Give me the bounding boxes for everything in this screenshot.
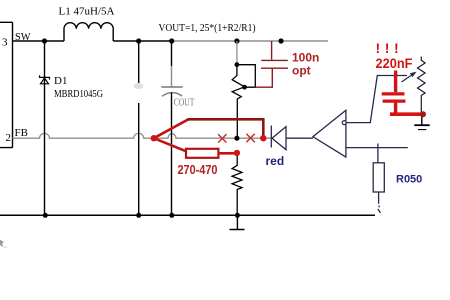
svg-text:opt: opt: [292, 64, 311, 78]
diode D2 (at "red" mod): [271, 126, 313, 150]
svg-text:MBRD1045G: MBRD1045G: [54, 88, 103, 100]
capacitor COUT plates: [161, 86, 182, 88]
svg-text:VOUT=1, 25*(1+R2/R1): VOUT=1, 25*(1+R2/R1): [159, 22, 256, 34]
node dot R2 tap: [242, 85, 247, 90]
svg-text:COUT: COUT: [174, 98, 195, 109]
wire vertical x138.7 lower: [138, 103, 140, 215]
wire bubble output to wiper arrow: [346, 76, 407, 123]
red node dot FB tap: [151, 135, 157, 141]
svg-text:100n: 100n: [292, 51, 319, 65]
wire R050 top lead: [377, 144, 379, 163]
svg-text:3: 3: [2, 37, 8, 49]
red mod wire lower diagonal to resistor box: [154, 138, 186, 151]
wire divider gray drop: [236, 41, 238, 65]
red X cut mark right: [246, 134, 254, 142]
node dot FB/divider junction: [234, 136, 239, 141]
svg-text:FB: FB: [15, 127, 28, 139]
wire VOUT net gray segment: [172, 40, 328, 42]
IC U1 box: [0, 22, 13, 147]
svg-text:270-470: 270-470: [178, 162, 218, 177]
inversion bubble: [342, 121, 346, 125]
wire inductor to COUT junction: [113, 40, 171, 42]
erased component smudge: [134, 83, 144, 89]
node dot top wire x138.7: [136, 38, 141, 43]
ground symbol right: [414, 124, 429, 126]
resistor 270-470 box: [186, 149, 218, 158]
red mod wire upper: diagonal + horizontal + drop: [154, 119, 189, 138]
cursor artifact bottom left: [0, 240, 4, 247]
wire COUT top lead: [171, 41, 173, 66]
wire pot bottom to ground: [421, 114, 423, 125]
diode D1 (schottky, pointing up): [40, 75, 50, 84]
svg-text:R050: R050: [396, 174, 422, 186]
node dot bus x45: [43, 213, 48, 218]
svg-text:!!!: !!!: [376, 40, 404, 56]
op-amp U2 triangle: [313, 110, 346, 157]
capacitor 220nF (thick red): [382, 71, 422, 115]
inductor L1: [64, 23, 113, 41]
wire vertical x138.7 upper (broken): [138, 41, 140, 83]
wire SW to inductor: [13, 40, 65, 42]
node dot bus x237: [235, 213, 240, 218]
wire 100n tap (black segments): [237, 65, 255, 88]
resistor R050 box: [373, 163, 384, 192]
wire lower output line: [346, 147, 408, 149]
red node dot at diode: [260, 135, 266, 141]
node dot top wire x281: [278, 38, 283, 43]
svg-text:red: red: [266, 154, 285, 168]
red X cut mark left: [218, 134, 226, 142]
wire R050 bottom lead with tick: [378, 192, 381, 213]
ground bus wire: [0, 214, 375, 216]
node dot bus x138.7: [136, 213, 141, 218]
wire FB net (gray) with hops: [13, 133, 272, 138]
potentiometer zigzag right: [418, 57, 426, 115]
resistor R1 zigzag: [232, 153, 242, 215]
node dot SW/D1 junction: [42, 38, 47, 43]
red node dot R1 top: [234, 150, 240, 156]
svg-text:220nF: 220nF: [376, 55, 413, 71]
ground symbol below R1: [230, 215, 245, 229]
svg-text:L1 47uH/5A: L1 47uH/5A: [59, 6, 115, 18]
node dot VOUT/COUT junction: [169, 38, 174, 43]
wire D1 branch vertical: [44, 41, 46, 215]
resistor R2 zigzag: [232, 65, 244, 139]
svg-text:2: 2: [6, 132, 12, 144]
node dot bus x172: [169, 213, 174, 218]
node dot R2 top: [235, 62, 240, 67]
red node dot at pot ground: [420, 111, 426, 117]
capacitor 100n (dark red): [255, 41, 288, 87]
wire COUT bottom lead: [171, 93, 173, 216]
arrowhead at wiper: [402, 74, 414, 82]
node dot divider top: [234, 38, 239, 43]
wire box to R1 top: [218, 152, 236, 155]
svg-text:D1: D1: [54, 75, 67, 87]
